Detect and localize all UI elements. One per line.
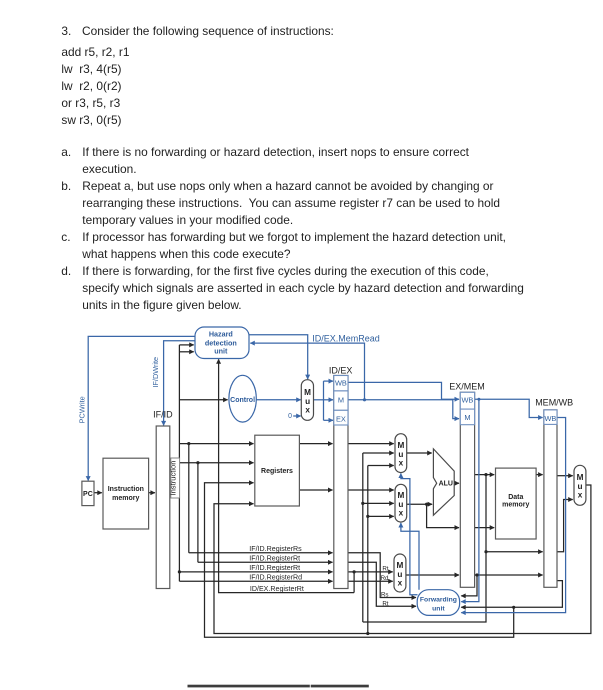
svg-text:M: M: [304, 388, 311, 397]
svg-text:ALU: ALU: [439, 481, 453, 488]
svg-text:M: M: [338, 396, 344, 405]
svg-text:memory: memory: [112, 495, 139, 502]
svg-text:u: u: [398, 500, 403, 509]
svg-text:u: u: [305, 397, 310, 406]
svg-text:WB: WB: [335, 379, 347, 388]
svg-text:u: u: [397, 570, 402, 579]
svg-text:WB: WB: [544, 414, 556, 423]
svg-text:PC: PC: [83, 491, 93, 498]
svg-text:Rt: Rt: [382, 565, 388, 572]
svg-text:M: M: [577, 473, 584, 482]
svg-text:ID/EX.RegisterRt: ID/EX.RegisterRt: [250, 585, 304, 593]
svg-text:IF/ID.RegisterRs: IF/ID.RegisterRs: [249, 545, 302, 553]
svg-text:ID/EX: ID/EX: [329, 365, 353, 375]
svg-text:M: M: [397, 441, 404, 450]
svg-text:Data: Data: [508, 494, 523, 501]
svg-text:u: u: [398, 450, 403, 459]
svg-text:IF/ID.RegisterRt: IF/ID.RegisterRt: [249, 564, 300, 572]
svg-text:IF/ID.RegisterRt: IF/ID.RegisterRt: [249, 555, 300, 563]
svg-text:M: M: [397, 491, 404, 500]
svg-text:memory: memory: [502, 501, 529, 508]
svg-text:x: x: [398, 579, 403, 588]
svg-text:x: x: [399, 459, 404, 468]
svg-text:Rd: Rd: [381, 575, 389, 582]
svg-text:x: x: [305, 406, 310, 415]
svg-text:M: M: [396, 561, 403, 570]
svg-text:PCWrite: PCWrite: [77, 396, 86, 423]
svg-text:Rs: Rs: [381, 591, 389, 598]
svg-text:x: x: [399, 509, 404, 518]
svg-text:unit: unit: [432, 605, 445, 612]
svg-text:Control: Control: [230, 397, 255, 404]
svg-text:MEM/WB: MEM/WB: [535, 397, 573, 407]
svg-text:Registers: Registers: [261, 468, 293, 475]
svg-text:ID/EX.MemRead: ID/EX.MemRead: [312, 333, 380, 343]
svg-text:unit: unit: [214, 347, 228, 356]
svg-text:Hazard: Hazard: [209, 330, 233, 339]
svg-text:IF/DWrite: IF/DWrite: [151, 357, 160, 388]
svg-text:Rt: Rt: [382, 600, 388, 607]
svg-text:Instruction: Instruction: [108, 486, 144, 493]
svg-text:x: x: [578, 491, 583, 500]
svg-text:EX/MEM: EX/MEM: [449, 382, 485, 392]
svg-text:u: u: [577, 482, 582, 491]
svg-text:Forwarding: Forwarding: [420, 596, 457, 603]
svg-text:M: M: [464, 413, 470, 422]
svg-text:EX: EX: [336, 415, 346, 424]
svg-text:WB: WB: [461, 396, 473, 405]
svg-text:IF/ID: IF/ID: [153, 410, 173, 420]
svg-text:0: 0: [288, 413, 292, 420]
svg-text:Instruction: Instruction: [168, 460, 177, 495]
svg-text:IF/ID.RegisterRd: IF/ID.RegisterRd: [249, 574, 302, 582]
